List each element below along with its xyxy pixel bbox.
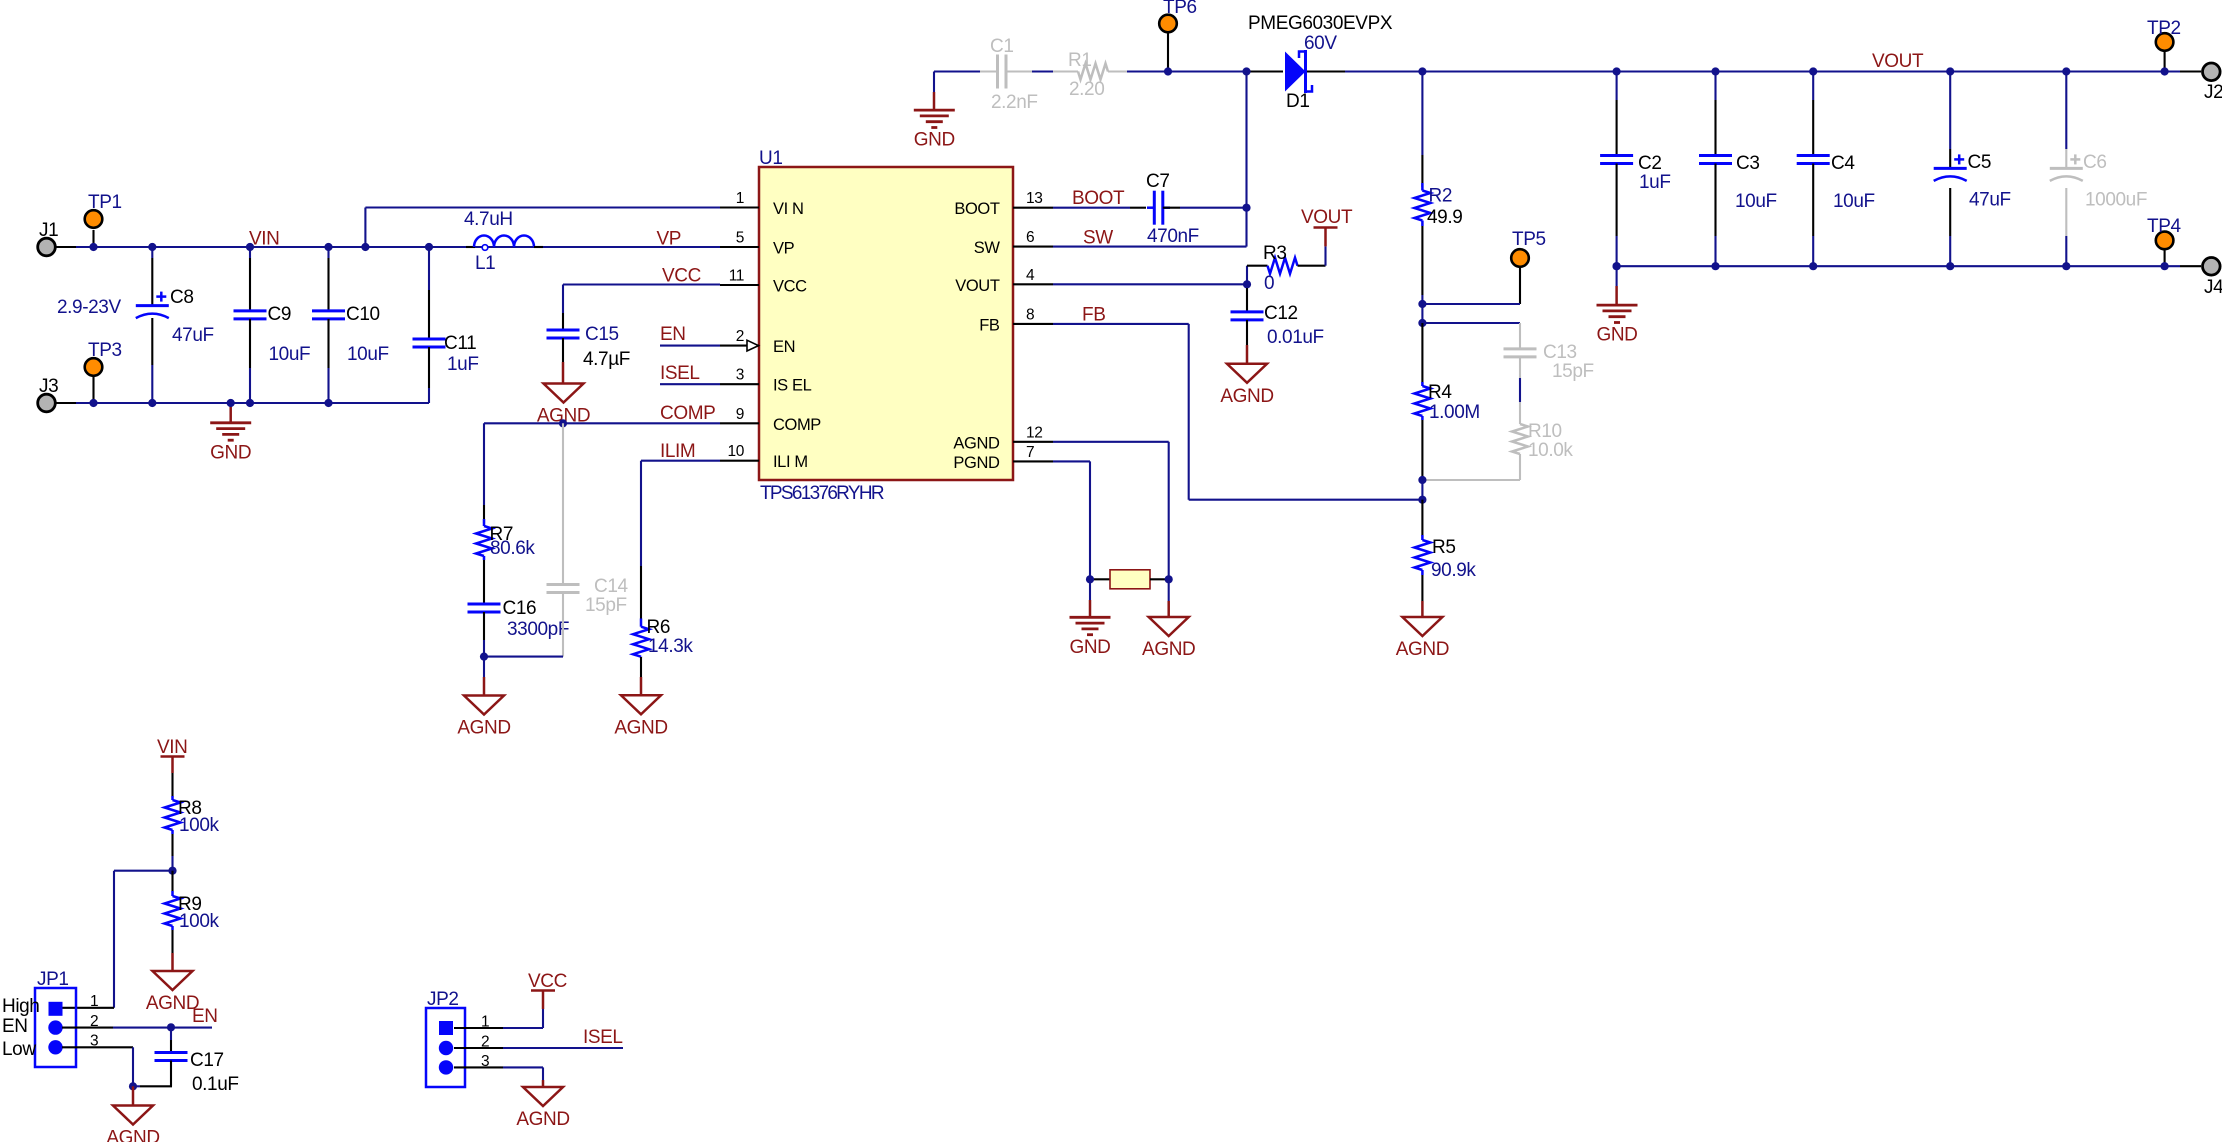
capacitor C2 1uF (1600, 72, 1670, 267)
diode D1 PMEG6030EVPX (1248, 13, 1393, 112)
capacitor C13 (DNP) 15pF (1422, 323, 1593, 382)
svg-text:C16: C16 (503, 598, 537, 619)
wire GND bottom rail (94, 402, 430, 404)
pin 7 PGND (953, 444, 1053, 472)
wire VCC net (563, 283, 720, 285)
capacitor C9 10uF (234, 247, 311, 403)
svg-text:R10: R10 (1528, 421, 1562, 442)
wire gnd drop left of C1 (933, 72, 935, 93)
wire VIN rail (94, 246, 732, 248)
svg-text:10.0k: 10.0k (1528, 440, 1573, 461)
power flag VIN bottom (157, 737, 187, 773)
test point TP4 (2147, 216, 2181, 266)
svg-text:4.7µF: 4.7µF (583, 349, 630, 370)
capacitor C1 (DNP) (980, 36, 1038, 113)
ground GND top (914, 110, 955, 151)
svg-text:ISEL: ISEL (660, 363, 700, 384)
capacitor C11 1uF (413, 247, 479, 403)
svg-text:SW: SW (974, 239, 1001, 257)
svg-text:TP6: TP6 (1163, 0, 1197, 18)
pin 6 SW (974, 229, 1053, 257)
svg-text:D1: D1 (1286, 91, 1310, 112)
svg-text:14.3k: 14.3k (648, 636, 693, 657)
pin 3 JP2 (454, 1053, 543, 1087)
svg-text:JP1: JP1 (37, 969, 69, 990)
ground GND at net tie (1069, 579, 1110, 658)
pin 8 FB (979, 306, 1053, 334)
ground AGND R9 (146, 971, 199, 1014)
pin 1 JP2 (454, 1009, 543, 1031)
test point TP2 (2147, 18, 2181, 72)
wire bottom of C14 to R7 junction (484, 656, 563, 658)
svg-text:COMP: COMP (773, 416, 821, 434)
svg-text:GND: GND (914, 130, 955, 151)
wire BOOT to C7 (1053, 207, 1130, 209)
svg-text:10: 10 (728, 443, 745, 460)
ground AGND R5 (1396, 617, 1449, 660)
svg-text:15pF: 15pF (585, 595, 627, 616)
svg-text:EN: EN (660, 324, 686, 345)
svg-text:470nF: 470nF (1147, 226, 1199, 247)
svg-text:1: 1 (481, 1014, 489, 1031)
pin 3 JP1 (62, 1033, 133, 1087)
svg-text:3: 3 (481, 1053, 489, 1070)
svg-text:TP3: TP3 (88, 340, 122, 361)
wire COMP net (484, 422, 720, 424)
svg-text:ILI M: ILI M (773, 453, 808, 471)
svg-text:47uF: 47uF (1969, 190, 2011, 211)
svg-text:AGND: AGND (953, 434, 1000, 452)
svg-text:VCC: VCC (528, 971, 567, 992)
test point TP5 (1422, 229, 1545, 304)
test point TP3 (85, 340, 122, 403)
svg-text:2.20: 2.20 (1069, 79, 1104, 100)
capacitor C3 10uF (1699, 72, 1777, 267)
svg-text:R4: R4 (1428, 382, 1452, 403)
svg-text:BOOT: BOOT (954, 200, 999, 218)
svg-text:C9: C9 (268, 304, 292, 325)
svg-text:EN: EN (773, 338, 795, 356)
ground AGND C12 (1220, 364, 1273, 407)
node junction TP6/rail (1164, 67, 1172, 75)
svg-text:TP5: TP5 (1512, 229, 1546, 250)
svg-text:PMEG6030EVPX: PMEG6030EVPX (1248, 13, 1393, 34)
svg-text:C1: C1 (990, 36, 1014, 57)
ground GND output (1596, 266, 1637, 345)
svg-text:C4: C4 (1831, 153, 1855, 174)
svg-text:90.9k: 90.9k (1431, 560, 1476, 581)
svg-text:VOUT: VOUT (1301, 207, 1353, 228)
resistor R7 80.6k (476, 519, 535, 560)
svg-text:1uF: 1uF (1639, 172, 1671, 193)
wire R8 to junction (171, 834, 173, 856)
svg-text:U1: U1 (759, 148, 783, 169)
capacitor C15 4.7uF (547, 324, 630, 370)
wire output bottom rail (1617, 265, 2180, 267)
pin 2 JP2 (454, 1034, 623, 1051)
pin 3 ISEL (720, 367, 812, 395)
svg-text:EN: EN (192, 1006, 218, 1027)
capacitor C8 47uF (136, 247, 214, 403)
pin 10 ILIM (720, 443, 808, 471)
svg-text:C6: C6 (2083, 152, 2107, 173)
node junction BOOT riser top (1242, 67, 1250, 75)
svg-text:High: High (2, 996, 39, 1017)
wire VOUT pin to junction (1053, 283, 1247, 285)
svg-text:1000uF: 1000uF (2085, 190, 2147, 211)
wire R4 bottom to FB junction (1421, 480, 1423, 500)
svg-text:JP2: JP2 (427, 989, 459, 1010)
svg-text:SW: SW (1083, 228, 1113, 249)
svg-text:1: 1 (736, 190, 744, 207)
svg-text:AGND: AGND (106, 1128, 159, 1142)
capacitor C14 (DNP) 15pF (547, 423, 629, 656)
svg-text:VP: VP (773, 240, 795, 258)
svg-text:R2: R2 (1429, 186, 1453, 207)
svg-text:AGND: AGND (1142, 639, 1195, 660)
capacitor C6 (DNP) 1000uF (2050, 72, 2147, 267)
svg-text:TP2: TP2 (2147, 18, 2181, 39)
svg-text:J1: J1 (39, 220, 58, 241)
capacitor C5 47uF (1934, 72, 2011, 267)
resistor R10 (DNP) 10.0k (1422, 402, 1573, 480)
svg-text:2.2nF: 2.2nF (991, 92, 1038, 113)
connector J1 (38, 220, 94, 256)
svg-text:10uF: 10uF (347, 344, 389, 365)
svg-text:GND: GND (210, 442, 251, 463)
svg-text:C11: C11 (444, 333, 476, 354)
svg-text:AGND: AGND (614, 717, 667, 738)
test point TP1 (85, 192, 122, 247)
svg-text:3: 3 (736, 367, 744, 384)
connector J2 (2180, 63, 2222, 103)
ground GND input (210, 403, 251, 463)
svg-text:VP: VP (657, 229, 682, 250)
resistor R2 49.9 (1414, 183, 1462, 228)
svg-text:80.6k: 80.6k (490, 538, 535, 559)
wire top VOUT rail (934, 70, 980, 72)
svg-text:2.9-23V: 2.9-23V (57, 297, 121, 318)
resistor R8 100k (165, 796, 220, 836)
pin 9 COMP (720, 406, 821, 434)
wire AGND pin12 net (1053, 441, 1169, 443)
svg-text:ILIM: ILIM (660, 441, 695, 462)
wire FB net (1053, 323, 1189, 325)
svg-text:AGND: AGND (1220, 386, 1273, 407)
connector JP1 (2, 969, 76, 1067)
svg-text:VCC: VCC (662, 266, 701, 287)
svg-text:60V: 60V (1304, 33, 1337, 54)
svg-text:10uF: 10uF (269, 344, 311, 365)
svg-text:C3: C3 (1736, 153, 1760, 174)
wire ILIM down to R6 (640, 461, 642, 566)
svg-text:47uF: 47uF (172, 325, 214, 346)
svg-text:L1: L1 (475, 253, 495, 274)
pin 1 VIN (720, 190, 804, 218)
wire C16 to junction (483, 612, 485, 640)
svg-text:C10: C10 (346, 304, 380, 325)
svg-text:FB: FB (979, 316, 1000, 334)
wire R7 to C16 (483, 560, 485, 604)
wire COMP down to R7 (483, 423, 485, 505)
wire junction to AGND (132, 1086, 135, 1106)
net label EN stub (660, 324, 720, 346)
svg-text:Low: Low (2, 1039, 36, 1060)
svg-text:C7: C7 (1146, 171, 1170, 192)
svg-text:VIN: VIN (157, 737, 187, 758)
svg-text:C5: C5 (1968, 152, 1992, 173)
svg-text:BOOT: BOOT (1072, 188, 1125, 209)
svg-text:15pF: 15pF (1552, 361, 1594, 382)
wire riser to VIN pin (364, 208, 366, 248)
capacitor C7 470nF (1146, 171, 1199, 247)
pin 11 VCC (720, 268, 807, 296)
svg-text:12: 12 (1026, 424, 1042, 441)
svg-text:C2: C2 (1638, 153, 1662, 174)
svg-text:GND: GND (1596, 325, 1637, 346)
resistor R3 0 (1247, 243, 1326, 294)
resistor R1 (DNP) (1053, 50, 1127, 100)
ground AGND R6 (614, 695, 667, 738)
connector J4 (2180, 258, 2222, 299)
connector J3 (38, 376, 94, 412)
capacitor C10 10uF (312, 247, 389, 403)
capacitor C12 0.01uF (1231, 284, 1324, 364)
wire VIN flag to R8 (171, 773, 173, 797)
wire R6 to AGND (640, 657, 642, 677)
svg-text:TPS61376RYHR: TPS61376RYHR (760, 483, 884, 504)
resistor R9 100k (165, 871, 220, 971)
capacitor C16 3300pF (468, 598, 570, 640)
svg-text:AGND: AGND (457, 718, 510, 739)
svg-text:3: 3 (90, 1033, 98, 1050)
ground AGND JP2 (516, 1087, 569, 1130)
pin 5 VP (720, 230, 795, 258)
wire SW net (1053, 246, 1247, 248)
svg-text:TP1: TP1 (88, 192, 122, 213)
pin 2 JP1 (62, 1013, 212, 1030)
wire PGND pin7 net (1053, 460, 1090, 462)
svg-text:J2: J2 (2204, 82, 2222, 103)
pin 4 VOUT (955, 267, 1053, 295)
svg-text:7: 7 (1026, 444, 1034, 461)
svg-text:5: 5 (736, 230, 744, 247)
pin 12 AGND (953, 424, 1053, 452)
svg-text:0: 0 (1264, 273, 1274, 294)
svg-text:100k: 100k (179, 911, 220, 932)
svg-text:4: 4 (1026, 267, 1035, 284)
svg-text:C15: C15 (585, 324, 619, 345)
svg-text:C17: C17 (190, 1050, 224, 1071)
svg-text:49.9: 49.9 (1427, 207, 1462, 228)
power flag VOUT at R3 (1301, 207, 1353, 266)
svg-text:0.01uF: 0.01uF (1267, 327, 1324, 348)
svg-text:13: 13 (1026, 190, 1042, 207)
svg-text:R6: R6 (647, 617, 671, 638)
wire C13/R10 mid segment (1519, 378, 1521, 402)
inductor L1 4.7uH (429, 209, 720, 274)
svg-text:1uF: 1uF (447, 354, 479, 375)
svg-text:10uF: 10uF (1833, 191, 1875, 212)
svg-text:11: 11 (729, 268, 744, 285)
wire C15 to AGND (562, 338, 564, 362)
svg-text:C8: C8 (170, 287, 194, 308)
svg-text:3300pF: 3300pF (507, 619, 569, 640)
svg-text:VI N: VI N (773, 200, 804, 218)
wire ILIM net (641, 460, 720, 462)
svg-text:TP4: TP4 (2147, 216, 2181, 237)
svg-text:EN: EN (2, 1016, 28, 1037)
svg-text:J3: J3 (39, 376, 58, 397)
pin 13 BOOT (954, 190, 1053, 218)
svg-text:VCC: VCC (773, 278, 807, 296)
svg-text:9: 9 (736, 406, 744, 423)
svg-text:PGND: PGND (953, 454, 1000, 472)
svg-text:4.7uH: 4.7uH (464, 209, 513, 230)
svg-text:GND: GND (1069, 637, 1110, 658)
svg-text:6: 6 (1026, 229, 1034, 246)
ground AGND at net tie (1142, 579, 1195, 660)
ground AGND R7/C16 (457, 696, 510, 739)
svg-text:C12: C12 (1264, 303, 1298, 324)
svg-text:1.00M: 1.00M (1429, 402, 1480, 423)
resistor R4 1.00M (1414, 323, 1479, 480)
connector JP2 (426, 989, 465, 1087)
svg-text:R1: R1 (1068, 50, 1092, 71)
pin 2 EN (720, 328, 795, 356)
wire R2 to junction (1421, 226, 1423, 295)
svg-text:2: 2 (90, 1013, 98, 1030)
net tie GND/AGND (1090, 570, 1169, 589)
op-amp U1 TPS61376RYHR body (759, 148, 1013, 504)
wire riser rail to SW (1245, 72, 1247, 247)
svg-text:8: 8 (1026, 306, 1034, 323)
svg-text:C13: C13 (1543, 342, 1577, 363)
svg-text:AGND: AGND (516, 1109, 569, 1130)
wire C7 to junction (1163, 207, 1180, 209)
svg-text:C14: C14 (594, 576, 628, 597)
svg-text:ISEL: ISEL (583, 1027, 623, 1048)
svg-text:VOUT: VOUT (955, 277, 1000, 295)
svg-text:J4: J4 (2204, 277, 2222, 298)
ground AGND C15 (537, 384, 590, 427)
capacitor C17 0.1uF (133, 1027, 239, 1095)
capacitor C4 10uF (1797, 72, 1875, 267)
test point TP6 (1159, 0, 1196, 72)
wire rail to R2 (1421, 72, 1423, 156)
svg-text:IS EL: IS EL (773, 377, 812, 395)
resistor R5 90.9k (1414, 500, 1476, 617)
ground AGND JP1 (106, 1106, 159, 1142)
svg-text:100k: 100k (179, 815, 220, 836)
svg-text:0.1uF: 0.1uF (192, 1074, 239, 1095)
svg-text:2: 2 (481, 1034, 489, 1051)
resistor R6 14.3k (633, 617, 693, 657)
svg-text:AGND: AGND (1396, 639, 1449, 660)
svg-text:COMP: COMP (660, 403, 715, 424)
svg-text:10uF: 10uF (1735, 191, 1777, 212)
svg-text:2: 2 (736, 328, 744, 345)
net label ISEL stub (660, 363, 720, 384)
wire to AGND below R7 (483, 657, 485, 677)
svg-text:1: 1 (90, 993, 98, 1010)
power flag VCC at JP2 (528, 971, 567, 1009)
svg-text:R3: R3 (1263, 243, 1287, 264)
svg-text:FB: FB (1082, 305, 1105, 326)
wire junction to JP1 pin1 (114, 870, 173, 872)
svg-text:VOUT: VOUT (1872, 51, 1924, 72)
svg-text:R5: R5 (1432, 537, 1456, 558)
